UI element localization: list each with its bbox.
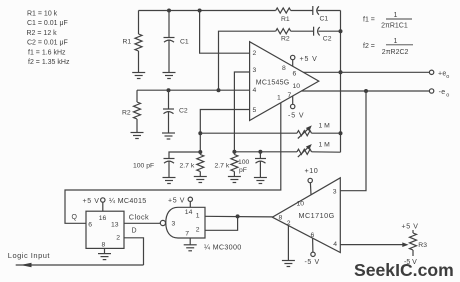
value label 2.7 k (right) xyxy=(215,163,230,170)
pin 2 label xyxy=(196,227,200,234)
label Q xyxy=(72,214,78,221)
svg-text:6: 6 xyxy=(311,232,315,239)
value label 2.7 k (left) xyxy=(180,163,195,170)
ground under 100 pF (right) xyxy=(254,178,267,184)
potentiometer 1M (lower) xyxy=(297,144,341,157)
capacitor 100 pF (left) xyxy=(164,152,201,178)
wire C2h to right riser xyxy=(319,30,341,32)
label +10 xyxy=(305,166,319,175)
pin 6 label xyxy=(311,232,315,239)
capacitor C2 (vertical) xyxy=(163,90,174,133)
ground under R2 xyxy=(131,133,144,139)
capacitor C1 (vertical) xyxy=(164,11,175,73)
ground under 2.7 k (right) xyxy=(228,177,241,183)
value label C2 (feedback) xyxy=(323,36,332,43)
junction pin2 riser top xyxy=(198,9,202,13)
+5V supply terminal of U1 xyxy=(291,55,295,66)
junction 100pF right xyxy=(258,150,262,154)
svg-text:1: 1 xyxy=(394,12,398,19)
value label C1 (feedback) xyxy=(320,16,329,23)
junction feedback riser / pot1 xyxy=(339,131,343,135)
svg-text:+5 V: +5 V xyxy=(168,197,185,204)
value label 1 M (upper) xyxy=(319,122,331,129)
svg-text:MC1710G: MC1710G xyxy=(299,211,335,220)
potentiometer 1M (upper) xyxy=(297,125,341,138)
wire C1h to right riser xyxy=(318,10,341,12)
pin 10 label xyxy=(297,201,305,208)
svg-text:10: 10 xyxy=(297,201,305,208)
value label list R1 = 10 k xyxy=(27,10,58,17)
svg-text:Q: Q xyxy=(72,214,78,221)
wire RC node right to 100pF right xyxy=(234,151,297,153)
pin 8 label xyxy=(282,65,286,72)
svg-text:2πR1C1: 2πR1C1 xyxy=(381,23,408,30)
capacitor C2 (horizontal, feedback) xyxy=(314,27,320,36)
node B wire (R2/C2 input node, to pin 4) xyxy=(137,89,250,91)
pin 3 label xyxy=(172,220,176,227)
label D xyxy=(132,227,137,234)
svg-text:+5 V: +5 V xyxy=(402,224,419,231)
svg-text:1: 1 xyxy=(196,213,200,220)
svg-text:4: 4 xyxy=(333,241,337,248)
label Clock xyxy=(129,212,149,221)
label 1/2 MC4015 xyxy=(109,196,147,205)
ground under U3 xyxy=(184,245,197,251)
svg-text:D: D xyxy=(132,227,137,234)
feedback right riser wire x=340.5 xyxy=(340,11,342,153)
junction pin3 riser / RC node xyxy=(232,150,236,154)
label -e o xyxy=(439,89,450,99)
wire -e output (pin 10) xyxy=(301,90,429,92)
node A top wire (R1/C1 input node) xyxy=(139,10,276,12)
svg-text:R1 = 10 k: R1 = 10 k xyxy=(27,10,58,17)
wire Clock: FF pin13 to gate input xyxy=(124,222,160,224)
label -5 V (U1) xyxy=(288,113,304,120)
svg-text:R1: R1 xyxy=(123,39,132,46)
svg-text:f2 = 1.35 kHz: f2 = 1.35 kHz xyxy=(28,59,70,66)
svg-text:+e: +e xyxy=(438,70,447,77)
svg-text:R3: R3 xyxy=(418,242,427,249)
svg-text:2: 2 xyxy=(196,227,200,234)
svg-text:3: 3 xyxy=(333,188,337,195)
junction C1 top xyxy=(167,9,171,13)
svg-text:1: 1 xyxy=(277,95,281,102)
pin 7 label xyxy=(288,92,292,99)
svg-text:4: 4 xyxy=(253,87,257,94)
output terminal +e xyxy=(429,70,433,74)
svg-text:C1: C1 xyxy=(180,39,189,46)
resistor 2.7 k (right) xyxy=(231,152,238,177)
label 1/4 MC3000 xyxy=(204,242,242,251)
svg-text:2πR2C2: 2πR2C2 xyxy=(382,49,409,56)
ground under U2 xyxy=(98,254,111,260)
pin 2 label xyxy=(287,220,291,227)
junction -e / comparator riser xyxy=(364,89,368,93)
wire comparator pin 4 output to R3 xyxy=(340,244,403,246)
wire logic input rail xyxy=(16,264,144,266)
svg-text:8: 8 xyxy=(279,214,283,221)
value label 1 M (lower) xyxy=(319,142,331,149)
label +5 V (R3) xyxy=(402,224,419,231)
wire between R2h and C2h xyxy=(291,30,314,32)
junction pin5 riser / pot1 bus xyxy=(198,131,202,135)
svg-text:100 pF: 100 pF xyxy=(133,163,154,170)
arrow logic input xyxy=(21,263,32,268)
wire gate pin2 output xyxy=(205,216,238,230)
pin 7 ground lead xyxy=(189,238,191,245)
value label R1 xyxy=(123,39,132,46)
pin 8 label xyxy=(102,241,106,248)
label MC1545G xyxy=(256,79,290,86)
junction R2h riser on pin4 wire xyxy=(217,88,221,92)
svg-text:C2: C2 xyxy=(179,108,188,115)
pin 6 label xyxy=(88,221,92,228)
formula f1 = 1/(2 pi R1C1) xyxy=(363,12,408,30)
arrow to R3 xyxy=(402,242,408,247)
flip-flop U2 1/2 MC4015 xyxy=(86,211,124,248)
wire R2h feedback riser from pin4 node up xyxy=(219,31,276,90)
label +5 V (U1) xyxy=(300,56,318,63)
svg-text:f1 =: f1 = xyxy=(363,17,375,24)
svg-text:100: 100 xyxy=(238,159,250,166)
pin 13 label xyxy=(111,221,119,228)
svg-text:1 M: 1 M xyxy=(319,122,331,129)
svg-text:pF: pF xyxy=(239,167,247,174)
wire between R1h and C1h xyxy=(291,10,313,12)
svg-text:6: 6 xyxy=(88,221,92,228)
junction feedback riser / +e output xyxy=(339,70,343,74)
pin 14 label xyxy=(185,209,193,216)
svg-text:C2 = 0.01 μF: C2 = 0.01 μF xyxy=(27,40,68,47)
comparator U4 MC1710G (points left) xyxy=(272,178,340,253)
svg-text:R2: R2 xyxy=(122,110,131,117)
svg-text:2.7 k: 2.7 k xyxy=(215,163,230,170)
wire riser from node A down to MC1545 pin 2 xyxy=(200,11,250,54)
pin 3 label xyxy=(333,188,337,195)
label -5 V (R3, behind watermark) xyxy=(404,259,417,266)
svg-text:7: 7 xyxy=(288,92,292,99)
value label R3 xyxy=(418,242,427,249)
svg-text:C1 = 0.01 μF: C1 = 0.01 μF xyxy=(27,20,68,27)
value label list C1 = 0.01 uF xyxy=(27,20,68,27)
gate U3 1/4 MC3000 (mirrored NAND) xyxy=(166,207,205,238)
svg-text:+10: +10 xyxy=(305,166,319,175)
ground under C1 xyxy=(163,73,176,79)
svg-text:2: 2 xyxy=(116,234,120,241)
svg-text:6: 6 xyxy=(293,71,297,78)
label -5 V (U4) xyxy=(305,259,320,266)
svg-text:f1 = 1.6 kHz: f1 = 1.6 kHz xyxy=(28,49,66,56)
pin 4 label xyxy=(253,87,257,94)
wire D input: FF pin2 right, down, to logic input rail xyxy=(124,238,144,265)
pin 8 ground lead xyxy=(104,248,106,253)
+5V supply terminal of U3 xyxy=(188,197,192,207)
svg-text:o: o xyxy=(446,93,449,99)
watermark SeekIC.com xyxy=(354,260,454,280)
svg-text:C1: C1 xyxy=(320,16,329,23)
svg-text:Clock: Clock xyxy=(129,212,149,221)
junction gate outputs xyxy=(236,214,240,218)
value label C1 xyxy=(180,39,189,46)
+10 supply terminal of U4 xyxy=(308,178,312,194)
junction feedback riser / R2C2 xyxy=(339,29,343,33)
svg-text:10: 10 xyxy=(293,83,301,90)
label MC1710G xyxy=(299,211,335,220)
resistor R3 xyxy=(410,230,417,256)
wire MC1545 pin 3 input xyxy=(234,72,249,152)
wire gate pin1 output to comparator xyxy=(205,215,273,218)
svg-text:-5 V: -5 V xyxy=(288,113,304,120)
+5V supply terminal of U2 xyxy=(101,198,105,211)
wire pot1 bus xyxy=(200,132,297,134)
pin 3 label xyxy=(253,67,257,74)
value label 100 pF (left) xyxy=(133,163,154,170)
pin 5 label xyxy=(253,107,257,114)
svg-text:1: 1 xyxy=(394,38,398,45)
svg-text:3: 3 xyxy=(172,220,176,227)
value label list C2 = 0.01 uF xyxy=(27,40,68,47)
pin 4 label xyxy=(333,241,337,248)
svg-text:1 M: 1 M xyxy=(319,142,331,149)
pin 8 label xyxy=(279,214,283,221)
pin 6 label xyxy=(293,71,297,78)
svg-text:13: 13 xyxy=(111,221,119,228)
pin 2 label xyxy=(253,50,257,57)
svg-text:Logic Input: Logic Input xyxy=(8,251,51,260)
ground under 100 pF (left) xyxy=(163,178,176,184)
value label R2 xyxy=(122,110,131,117)
value label list R2 = 12 k xyxy=(27,30,58,37)
wire comparator pin 3 input from -e line xyxy=(340,91,366,191)
pin 10 label xyxy=(293,83,301,90)
label +5 V (U3) xyxy=(168,197,185,204)
pin 7 label xyxy=(185,231,189,238)
resistor 2.7 k (left) xyxy=(197,152,204,177)
svg-text:7: 7 xyxy=(185,231,189,238)
value label list f2 = 1.35 kHz xyxy=(28,59,70,66)
wire MC1545 pin 5 input xyxy=(200,110,249,153)
svg-text:8: 8 xyxy=(102,241,106,248)
svg-text:2: 2 xyxy=(253,50,257,57)
label Logic Input xyxy=(8,251,51,260)
junction C2 top xyxy=(167,88,171,92)
ground under U4 pin 2 xyxy=(282,261,295,267)
wire gate control: MC1545 pin1 down, across, to FF Q xyxy=(65,103,281,224)
svg-text:-e: -e xyxy=(439,89,446,96)
svg-text:14: 14 xyxy=(185,209,193,216)
svg-text:-5 V: -5 V xyxy=(305,259,320,266)
value label R2 (feedback) xyxy=(281,36,290,43)
ground under R1 xyxy=(132,73,145,79)
value label 100 pF (right) xyxy=(238,159,250,174)
label +e o xyxy=(438,70,449,80)
pin 16 label xyxy=(99,215,107,222)
output terminal -e xyxy=(429,89,433,93)
resistor R2 (horizontal, feedback) xyxy=(276,29,291,34)
svg-text:+5 V: +5 V xyxy=(83,198,100,205)
pin 1 label xyxy=(277,95,281,102)
svg-text:16: 16 xyxy=(99,215,107,222)
svg-text:5: 5 xyxy=(253,107,257,114)
value label list f1 = 1.6 kHz xyxy=(28,49,66,56)
formula f2 = 1/(2 pi R2C2) xyxy=(363,38,409,56)
resistor R2 (vertical) xyxy=(134,90,141,132)
svg-text:MC1545G: MC1545G xyxy=(256,79,290,86)
resistor R1 (vertical) xyxy=(135,11,142,73)
svg-text:SeekIC.com: SeekIC.com xyxy=(354,260,454,280)
op-amp U1 MC1545G xyxy=(250,42,319,121)
pin 1 label xyxy=(196,213,200,220)
value label C2 xyxy=(179,108,188,115)
pin 2 label xyxy=(116,234,120,241)
ground under 2.7 k (left) xyxy=(194,177,207,183)
ground under C2 xyxy=(162,133,175,139)
capacitor C1 (horizontal, feedback) xyxy=(313,6,319,15)
svg-text:8: 8 xyxy=(282,65,286,72)
svg-text:R1: R1 xyxy=(281,16,290,23)
svg-text:C2: C2 xyxy=(323,36,332,43)
junction pin5 riser / RC node xyxy=(198,150,202,154)
gate output bubble xyxy=(160,220,165,225)
capacitor 100 pF (right) xyxy=(255,152,266,178)
svg-text:o: o xyxy=(446,74,449,80)
svg-text:¼ MC4015: ¼ MC4015 xyxy=(109,196,147,205)
svg-text:+5 V: +5 V xyxy=(300,56,318,63)
svg-text:R2: R2 xyxy=(281,36,290,43)
svg-text:R2 = 12 k: R2 = 12 k xyxy=(27,30,58,37)
svg-text:2.7 k: 2.7 k xyxy=(180,163,195,170)
-5V supply terminal of U1 xyxy=(291,96,295,109)
-5V supply terminal of U4 xyxy=(311,238,315,256)
resistor R1 (horizontal, feedback) xyxy=(276,8,291,13)
wire +e output (pin 6) xyxy=(303,71,429,73)
svg-text:f2 =: f2 = xyxy=(363,43,375,50)
svg-text:3: 3 xyxy=(253,67,257,74)
label +5 V (U2) xyxy=(83,198,100,205)
svg-text:¼ MC3000: ¼ MC3000 xyxy=(204,242,242,251)
value label R1 (feedback) xyxy=(281,16,290,23)
pin 2 ground lead xyxy=(287,226,289,261)
